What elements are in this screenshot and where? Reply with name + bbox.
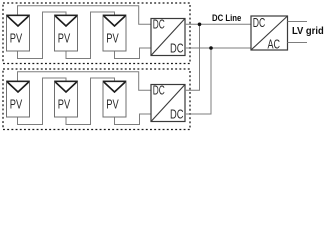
svg-text:PV: PV [106, 31, 119, 45]
svg-text:PV: PV [10, 31, 23, 45]
svg-text:DC: DC [253, 16, 266, 30]
wire LV grid lower phase [288, 42, 308, 44]
PV module PV2 [55, 15, 78, 51]
svg-text:DC: DC [170, 108, 184, 122]
svg-text:PV: PV [58, 97, 71, 111]
wire PV4 bottom to PV5 top [18, 78, 67, 125]
svg-text:PV: PV [58, 31, 71, 45]
DC-DC converter U1 [151, 18, 185, 56]
svg-text:DC: DC [153, 18, 165, 32]
PV module PV6 [103, 81, 126, 117]
svg-text:PV: PV [10, 97, 23, 111]
wire U2 upper output riser to positive bus [185, 24, 200, 90]
wire PV2 bottom to PV3 top [66, 12, 115, 59]
wire PV1 top to DC-DC U1 upper input [18, 6, 152, 25]
wire DC line negative bus [185, 47, 251, 49]
wire DC line positive bus [185, 23, 251, 25]
wire PV5 bottom to PV6 top [66, 78, 115, 125]
svg-text:DC: DC [153, 84, 165, 98]
wire PV3 bottom to DC-DC U1 lower input [115, 48, 152, 59]
DC-AC inverter U3 [251, 16, 288, 52]
PV module PV4 [7, 81, 30, 117]
svg-text:DC: DC [170, 42, 184, 56]
wire LV grid upper phase [288, 21, 308, 23]
svg-text:AC: AC [268, 38, 281, 52]
wire PV4 top to DC-DC U2 upper input [18, 72, 152, 91]
wire PV6 bottom to DC-DC U2 lower input [115, 114, 152, 125]
PV module PV3 [103, 15, 126, 51]
svg-text:LV grid: LV grid [292, 26, 324, 37]
junction dot positive bus [198, 23, 202, 27]
dashed enclosure string 2 [3, 69, 190, 130]
dashed enclosure string 1 [3, 3, 190, 64]
svg-text:DC Line: DC Line [212, 13, 241, 23]
PV module PV5 [55, 81, 78, 117]
DC-DC converter U2 [151, 84, 185, 122]
svg-text:PV: PV [106, 97, 119, 111]
junction dot negative bus [209, 46, 213, 50]
PV module PV1 [7, 15, 30, 51]
wire PV1 bottom to PV2 top [18, 12, 67, 59]
wire U2 lower output riser to negative bus [185, 48, 211, 114]
